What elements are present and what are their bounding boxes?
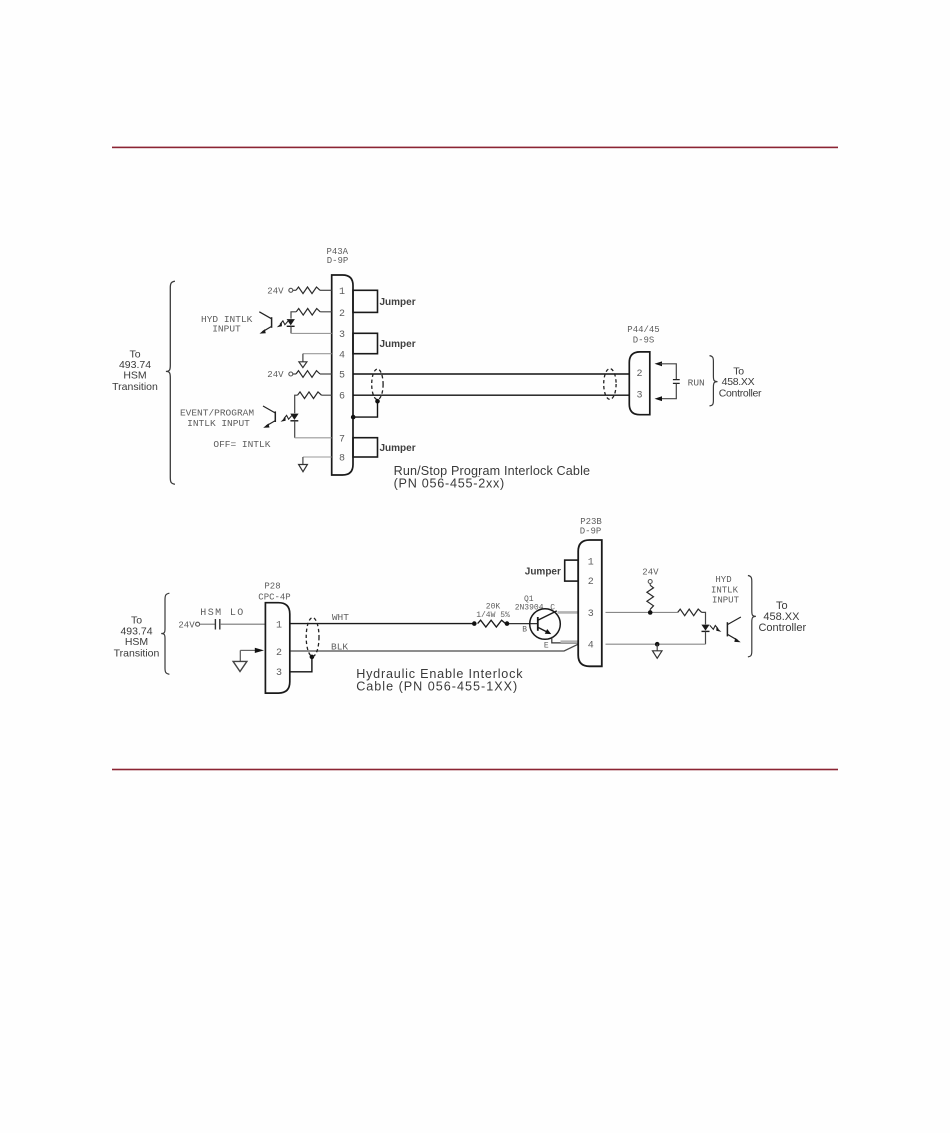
- svg-text:INTLK: INTLK: [711, 586, 739, 596]
- svg-text:4: 4: [339, 350, 345, 361]
- svg-text:RUN: RUN: [688, 377, 705, 388]
- svg-text:Transition: Transition: [114, 647, 160, 659]
- photon arrows (pointing right): [710, 625, 718, 629]
- svg-text:WHT: WHT: [332, 612, 349, 623]
- node label EVENT/PROGRAM INTLK INPUT: [180, 408, 271, 450]
- svg-text:2N3904: 2N3904: [515, 604, 544, 613]
- svg-text:HYD: HYD: [715, 575, 731, 585]
- connector P44/45 D-9S: [627, 325, 659, 345]
- svg-text:Q1: Q1: [524, 595, 534, 604]
- wire: [291, 312, 332, 319]
- emitter wire to P23B pin 4: [552, 637, 578, 643]
- cable wire pin6 to P44/45 pin3: [353, 394, 629, 396]
- svg-text:6: 6: [339, 392, 345, 403]
- photon arrows: [284, 415, 292, 419]
- wire LED cathode to pin 3: [291, 332, 332, 334]
- resistor (P43A pin 2 to opto LED): [296, 309, 320, 316]
- svg-text:7: 7: [339, 434, 345, 445]
- resistor (24V to P43A pin 1): [296, 287, 320, 294]
- opto-isolator LED (HYD INTLK INPUT, controller): [701, 625, 709, 631]
- svg-text:EVENT/PROGRAM: EVENT/PROGRAM: [180, 408, 254, 419]
- node: To 458.XX Controller (top): [719, 366, 762, 400]
- svg-text:(PN 056-455-2xx): (PN 056-455-2xx): [394, 476, 505, 490]
- svg-text:1: 1: [276, 621, 282, 632]
- svg-text:1/4W 5%: 1/4W 5%: [476, 611, 510, 620]
- svg-text:1: 1: [588, 558, 594, 569]
- svg-text:P23B: P23B: [580, 517, 602, 527]
- svg-text:D-9P: D-9P: [580, 527, 602, 537]
- opto phototransistor (HSM side): [274, 411, 276, 422]
- svg-text:5: 5: [339, 371, 345, 382]
- resistor 20K 1/4W 5% (base of Q1): [476, 602, 510, 620]
- brace left (top diagram): [166, 281, 175, 484]
- svg-text:Controller: Controller: [719, 387, 762, 399]
- resistor (P23B pin 3 to opto LED): [678, 609, 702, 616]
- svg-text:Jumper: Jumper: [380, 297, 416, 308]
- svg-text:Jumper: Jumper: [525, 567, 561, 578]
- ground (P43A pin 4): [303, 353, 332, 355]
- title: Run/Stop Program Interlock Cable: [394, 464, 591, 491]
- svg-text:2: 2: [276, 648, 282, 659]
- svg-text:3: 3: [339, 330, 345, 341]
- wire to P28 pin 1: [220, 623, 265, 625]
- opto-isolator LED (HYD INTLK INPUT): [287, 319, 295, 325]
- svg-text:458.XX: 458.XX: [763, 611, 800, 623]
- node label HYD INTLK INPUT: [201, 314, 253, 335]
- wire: [293, 289, 296, 291]
- connector P43A D-9P: [326, 247, 348, 266]
- ground (into P28 pin 2): [240, 649, 256, 651]
- ground (P43A pin 8): [303, 456, 332, 458]
- title: Hydraulic Enable Interlock Cable: [356, 667, 523, 694]
- node: To 458.XX Controller (bottom): [758, 600, 806, 634]
- svg-text:P44/45: P44/45: [627, 325, 659, 335]
- bottom red rule: [112, 769, 838, 771]
- opto-isolator LED (EVENT/PROGRAM INTLK INPUT): [290, 414, 298, 420]
- svg-text:D-9P: D-9P: [327, 256, 349, 266]
- svg-text:HSM: HSM: [123, 369, 146, 381]
- pin numbers P23B: [588, 558, 594, 652]
- svg-text:3: 3: [276, 668, 282, 679]
- svg-text:HSM LO: HSM LO: [200, 608, 244, 619]
- jumper P43A pins 1-2: [353, 290, 378, 312]
- connector P28 CPC-4P: [258, 582, 290, 603]
- svg-text:24V: 24V: [178, 621, 195, 631]
- svg-text:Cable (PN 056-455-1XX): Cable (PN 056-455-1XX): [356, 680, 518, 694]
- svg-text:2: 2: [339, 309, 345, 320]
- svg-text:2: 2: [588, 577, 594, 588]
- svg-text:OFF= INTLK: OFF= INTLK: [213, 439, 270, 450]
- wire: [320, 289, 332, 291]
- svg-text:Transition: Transition: [112, 381, 158, 393]
- wire to Q1 base: [509, 623, 538, 625]
- svg-text:2: 2: [636, 369, 642, 380]
- brace left (bottom diagram): [161, 593, 169, 674]
- top red rule: [112, 147, 838, 149]
- svg-text:458.XX: 458.XX: [722, 376, 755, 388]
- pin numbers P44/45: [636, 369, 642, 401]
- svg-text:D-9S: D-9S: [633, 335, 655, 345]
- svg-text:3: 3: [588, 609, 594, 620]
- cable shield ellipse (right): [604, 369, 616, 400]
- svg-text:1: 1: [339, 287, 345, 298]
- jumper P43A pins 7-8: [353, 438, 378, 457]
- svg-text:Jumper: Jumper: [380, 339, 416, 350]
- pin numbers P43A: [339, 287, 345, 465]
- svg-text:20K: 20K: [486, 602, 501, 611]
- wire LED cathode to pin 7: [295, 437, 332, 439]
- resistor (24V to P43A pin 5): [296, 371, 320, 378]
- svg-text:To: To: [776, 600, 788, 612]
- jumper P23B pins 1-2: [565, 560, 579, 581]
- svg-text:INPUT: INPUT: [212, 324, 241, 335]
- svg-text:INPUT: INPUT: [712, 595, 740, 605]
- opto phototransistor (HSM side): [271, 317, 273, 328]
- gray pin stubs P23B pins 3,4: [558, 611, 579, 614]
- node: To 493.74 HSM Transition (left, bottom): [114, 614, 160, 659]
- P28 pin3 to shield: [291, 658, 312, 672]
- resistor (P43A pin 6 to opto LED): [298, 392, 322, 399]
- pin numbers P28: [276, 621, 282, 679]
- jumper P43A pins 3-4: [353, 333, 378, 353]
- opto phototransistor (controller side): [726, 622, 728, 636]
- wire: [200, 623, 215, 625]
- svg-text:24V: 24V: [267, 287, 284, 297]
- connector P23B D-9P: [580, 517, 603, 537]
- svg-text:4: 4: [588, 641, 594, 652]
- brace right (bottom diagram): [748, 576, 756, 657]
- node label HYD INTLK INPUT (bottom): [711, 575, 740, 605]
- svg-text:8: 8: [339, 453, 345, 464]
- svg-text:Controller: Controller: [758, 622, 806, 634]
- P23B pin 3 wire right: [606, 611, 678, 613]
- svg-text:P28: P28: [264, 582, 280, 592]
- shield drain to shell: [375, 399, 380, 404]
- transistor Q1 2N3904 (NPN): [515, 595, 556, 650]
- switch RUN (contact across P44/45 pins 2-3): [655, 361, 663, 366]
- ground (P23B pin 4 net): [656, 644, 658, 650]
- resistor (24V pull-up to P23B pin 3): [647, 585, 654, 609]
- svg-text:24V: 24V: [267, 370, 284, 380]
- brace right (top diagram): [710, 356, 718, 406]
- svg-text:24V: 24V: [642, 567, 659, 577]
- P23B pin 4 wire right: [606, 643, 706, 645]
- node: To 493.74 HSM Transition (left, top): [112, 348, 158, 392]
- svg-text:CPC-4P: CPC-4P: [258, 592, 290, 602]
- svg-text:Jumper: Jumper: [380, 443, 416, 454]
- svg-text:E: E: [544, 641, 549, 650]
- svg-text:HSM: HSM: [125, 636, 148, 648]
- cable wire pin5 to P44/45 pin2: [353, 373, 629, 375]
- svg-text:INTLK INPUT: INTLK INPUT: [187, 418, 250, 429]
- photon arrows: [280, 321, 288, 325]
- svg-text:3: 3: [636, 390, 642, 401]
- cable shield ellipse (bottom): [306, 618, 319, 657]
- cable shield ellipse (left): [372, 369, 383, 400]
- svg-text:B: B: [522, 625, 527, 634]
